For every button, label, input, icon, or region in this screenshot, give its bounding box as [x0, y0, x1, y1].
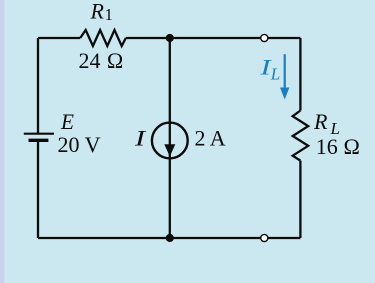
svg-text:Ω: Ω	[107, 48, 124, 73]
terminal node (bottom right, open)	[261, 234, 268, 241]
svg-text:L: L	[270, 64, 280, 83]
svg-text:R: R	[313, 109, 328, 134]
svg-text:24: 24	[79, 48, 101, 73]
svg-text:R: R	[90, 0, 105, 23]
wire left side (bottom part, from battery to bottom-left corner)	[37, 141, 39, 238]
resistor RL	[293, 111, 309, 161]
battery E (short thick plate)	[29, 139, 49, 142]
wire bottom	[38, 237, 300, 239]
wire right side (top part)	[299, 38, 301, 111]
svg-text:20 V: 20 V	[58, 132, 101, 157]
current arrow IL (blue)	[284, 54, 286, 89]
svg-text:2 A: 2 A	[195, 126, 226, 151]
current source I (circle)	[152, 123, 188, 159]
junction node (top middle)	[166, 34, 174, 42]
terminal node (top right, open)	[261, 34, 268, 41]
current source I (arrowhead)	[164, 144, 175, 156]
resistor R1	[80, 30, 126, 46]
left margin stripe	[0, 0, 5, 283]
wire top-right: from R1 right lead to top-right corner	[126, 37, 301, 39]
svg-text:E: E	[60, 109, 74, 134]
battery E (long plate)	[24, 133, 54, 135]
wire right side (bottom part)	[299, 161, 301, 238]
wire top-left: from R1 left lead to top-left corner	[38, 37, 80, 39]
svg-text:16 Ω: 16 Ω	[316, 134, 360, 159]
junction node (bottom middle)	[166, 234, 174, 242]
wire left side (top part, to battery top plate)	[37, 38, 39, 133]
wire middle branch	[169, 38, 171, 238]
svg-text:1: 1	[105, 5, 113, 24]
